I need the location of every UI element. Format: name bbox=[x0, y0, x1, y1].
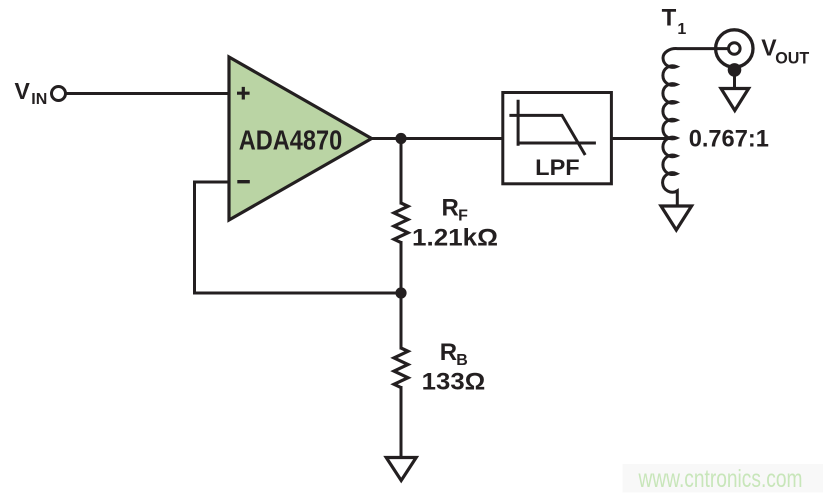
wire RB to ground bbox=[400, 386, 403, 456]
svg-text:R: R bbox=[442, 195, 459, 222]
watermark background bbox=[623, 464, 823, 493]
ground below transformer bbox=[661, 206, 692, 230]
svg-text:V: V bbox=[15, 78, 31, 104]
wire node B down to RB bbox=[400, 293, 403, 350]
svg-text:IN: IN bbox=[31, 91, 47, 108]
resistor RF bbox=[394, 203, 408, 243]
wire VIN to op-amp + input bbox=[66, 92, 231, 95]
output connector VOUT outer ring bbox=[716, 30, 753, 67]
wire RF to node B bbox=[400, 241, 403, 293]
LPF response icon bbox=[509, 100, 596, 155]
wire shield dot to ground bbox=[733, 70, 736, 87]
svg-text:OUT: OUT bbox=[775, 48, 810, 67]
svg-text:1.21kΩ: 1.21kΩ bbox=[412, 224, 498, 251]
svg-text:F: F bbox=[458, 207, 468, 224]
svg-text:R: R bbox=[440, 339, 457, 366]
wire feedback from - input to node B bbox=[195, 182, 402, 293]
node B feedback junction bbox=[395, 287, 406, 298]
transformer T1 autotransformer coil bbox=[663, 49, 731, 207]
ground below VOUT bbox=[721, 89, 749, 111]
ground below RB bbox=[386, 458, 416, 481]
svg-text:ADA4870: ADA4870 bbox=[239, 124, 343, 155]
svg-text:1: 1 bbox=[677, 21, 686, 38]
op-amp U1 ADA4870 bbox=[229, 57, 372, 220]
svg-text:0.767:1: 0.767:1 bbox=[689, 125, 769, 152]
LPF box bbox=[503, 93, 612, 184]
resistor RB bbox=[394, 348, 408, 388]
svg-text:B: B bbox=[456, 352, 468, 369]
wire node A down to RF bbox=[400, 139, 403, 205]
wire op-amp output to LPF bbox=[370, 137, 503, 140]
svg-text:T: T bbox=[662, 5, 677, 32]
input terminal VIN bbox=[52, 87, 66, 101]
output connector VOUT center pin bbox=[729, 43, 741, 55]
node A output junction bbox=[395, 133, 406, 144]
node VOUT shield dot bbox=[728, 63, 742, 77]
wire LPF to transformer tap bbox=[611, 137, 670, 140]
svg-text:www.cntronics.com: www.cntronics.com bbox=[638, 465, 803, 493]
svg-text:LPF: LPF bbox=[535, 155, 580, 180]
svg-text:133Ω: 133Ω bbox=[422, 369, 486, 396]
